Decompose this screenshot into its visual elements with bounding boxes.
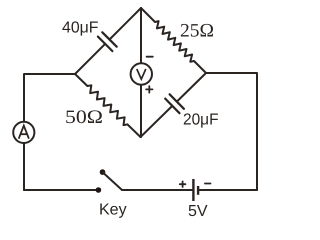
wire: left rail and top-left horizontal xyxy=(24,74,75,190)
svg-text:20μF: 20μF xyxy=(183,112,219,129)
svg-text:40μF: 40μF xyxy=(62,20,99,37)
label 25Ω for resistor R1 xyxy=(180,21,214,42)
wire: top-right horizontal and right rail xyxy=(206,73,257,190)
wire: right vertex to capacitor C2 upper plate xyxy=(177,73,206,102)
wire: switch to battery segment xyxy=(122,189,193,191)
battery BT1 short negative plate xyxy=(197,186,199,195)
voltmeter plus polarity mark xyxy=(146,86,152,92)
svg-text:5V: 5V xyxy=(188,203,208,220)
switch S1 left contact dot xyxy=(96,187,102,193)
switch S1 lever arm xyxy=(103,172,123,190)
wire: capacitor C2 lower plate to bottom vertex xyxy=(141,106,173,137)
voltmeter U1 letter V xyxy=(137,69,146,79)
svg-text:Key: Key xyxy=(99,202,127,219)
wire: voltmeter branch vertical xyxy=(140,8,142,137)
wire: battery to right rail segment xyxy=(198,189,257,191)
voltmeter U1 circle xyxy=(131,63,152,84)
wire: top vertex to capacitor C1 top plate xyxy=(110,8,142,40)
resistor R2 50Ω zigzag with leads xyxy=(75,74,141,137)
label Key for switch S1 xyxy=(99,202,127,219)
svg-text:50Ω: 50Ω xyxy=(65,107,103,128)
label 50Ω for resistor R2 xyxy=(65,107,103,128)
capacitor C1 40μF plates xyxy=(98,32,117,51)
svg-text:25Ω: 25Ω xyxy=(180,21,214,42)
battery minus polarity mark xyxy=(205,183,211,185)
ammeter U2 letter A xyxy=(19,126,29,139)
battery plus polarity mark xyxy=(180,181,186,187)
resistor R1 25Ω zigzag with leads xyxy=(141,8,206,73)
voltmeter minus polarity mark xyxy=(147,56,153,58)
capacitor C2 20μF plates xyxy=(165,94,184,113)
label 20μF for capacitor C2 xyxy=(183,112,219,129)
battery BT1 long positive plate xyxy=(192,179,194,201)
label 40μF for capacitor C1 xyxy=(62,20,99,37)
label 5V for battery BT1 xyxy=(188,203,208,220)
wire: bottom-left segment to switch contact xyxy=(24,189,98,191)
ammeter U2 circle xyxy=(13,122,34,143)
wire: capacitor C1 bottom plate to left vertex xyxy=(75,44,105,74)
switch S1 lever free-end dot xyxy=(100,169,106,175)
